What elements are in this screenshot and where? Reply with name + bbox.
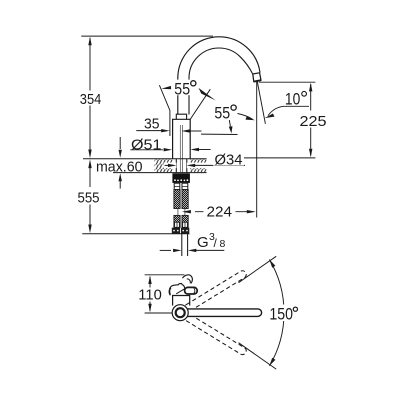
countertop top line: [83, 158, 207, 160]
top view: lever left arc: [170, 288, 171, 295]
countertop hatch left: [155, 159, 173, 172]
white halos for hole diameter arrows: [164, 163, 177, 169]
55 deg first: left arc arrow: [161, 86, 171, 89]
dimension 225: [259, 81, 316, 83]
top view: lever diagonal: [176, 288, 186, 294]
svg-text:354: 354: [80, 91, 102, 108]
top view: lower extension line: [239, 343, 277, 369]
dimension 224: [195, 211, 249, 213]
supply pipes inside body: [180, 125, 182, 173]
body: [173, 119, 191, 158]
white mask behind first 55 label: [173, 80, 197, 96]
aerator outlet: [253, 73, 261, 82]
dimension max.60: [119, 137, 121, 149]
svg-text:max.60: max.60: [96, 158, 143, 175]
white mask behind 150 label: [266, 305, 299, 322]
degree symbol of first 55: [191, 81, 196, 86]
dimension 35 right arrow at centerline: [181, 129, 190, 133]
top view: lower dashed arm: [183, 313, 247, 356]
mounting nut: [172, 173, 190, 183]
shank in countertop: [176, 159, 187, 173]
svg-text:8: 8: [220, 238, 226, 250]
G3/8 left arrow: [160, 249, 171, 251]
top view: upper extension line: [239, 256, 277, 282]
dimension 555: [89, 162, 91, 231]
svg-text:35: 35: [144, 116, 160, 133]
collar: [176, 114, 186, 119]
hose break thin tubes: [178, 209, 185, 216]
degree symbol of 150: [293, 307, 297, 311]
braided hose lower left: [174, 215, 180, 227]
degree symbol of 10: [302, 91, 307, 96]
spout arc outer: [178, 37, 260, 115]
svg-text:225: 225: [300, 113, 327, 130]
55 deg second: leader to plumb line: [238, 114, 253, 120]
top view: lever body: [169, 284, 184, 296]
braided hose upper left: [174, 190, 180, 209]
top view: pivot inner circle: [176, 308, 185, 317]
top view: body: [173, 296, 190, 306]
hose end fitting windows: [175, 222, 188, 227]
hose crimp collars: [174, 183, 180, 189]
white mask behind diameter34 label: [213, 154, 244, 166]
hose end line / 555 extension: [82, 233, 189, 235]
svg-text:Ø34: Ø34: [215, 152, 243, 169]
svg-text:G: G: [197, 234, 209, 251]
top view: swivel arc 150: [269, 260, 284, 366]
G3/8 right arrow and underline: [196, 249, 225, 251]
top view: lever tip crescent: [182, 275, 192, 284]
top view: lever paddle: [185, 287, 198, 294]
dimension diameter 51 leader: [130, 149, 163, 151]
10 degree leader: [268, 106, 309, 115]
svg-text:55: 55: [174, 79, 190, 98]
svg-text:110: 110: [138, 287, 162, 304]
braided hose upper right: [182, 190, 188, 209]
dimension 354: [81, 35, 213, 37]
svg-text:150: 150: [269, 305, 293, 323]
dimension 110: [149, 277, 151, 311]
55 deg first: right arc arrow: [199, 88, 216, 101]
top view: 110 extension top: [145, 274, 185, 276]
svg-text:55: 55: [214, 104, 230, 123]
dimension diameter 34 underline: [195, 164, 245, 166]
top view: solid spout arm: [183, 309, 262, 317]
55 deg first: right ray: [190, 89, 210, 119]
55 deg second: down arrow: [229, 120, 230, 126]
hole diameter 34 left arrow: [168, 164, 177, 167]
water stream 10 degree line: [257, 81, 265, 124]
top view: upper dashed arm: [183, 269, 247, 312]
degree symbol of second 55: [231, 105, 236, 110]
top view: 110 extension bottom: [145, 312, 172, 314]
top view: pivot outer circle: [172, 305, 188, 321]
dimension 35 leader left arrow: [136, 130, 162, 132]
svg-text:10: 10: [285, 90, 300, 109]
55 deg second: open lever reference line: [201, 133, 238, 135]
spout arc inner: [189, 48, 253, 115]
55 deg first: left ray and lever left extreme line: [159, 85, 170, 136]
countertop hatch right: [190, 159, 206, 172]
countertop bottom line: [113, 172, 207, 174]
svg-text:224: 224: [207, 204, 233, 221]
braided hose lower right: [182, 215, 188, 227]
hose end hex nuts: [172, 228, 180, 234]
threaded tail pipe G3/8: [182, 234, 188, 256]
svg-text:555: 555: [78, 190, 100, 207]
spout plumb line: [256, 81, 258, 217]
svg-text:Ø51: Ø51: [131, 136, 162, 153]
hole diameter 34 right arrow: [187, 164, 196, 167]
